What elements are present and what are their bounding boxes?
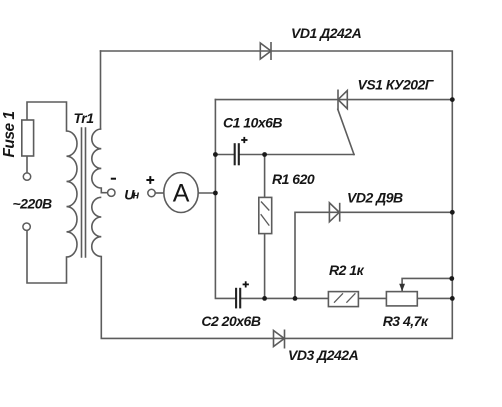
- svg-text:Fuse 1: Fuse 1: [1, 111, 18, 157]
- svg-text:R3 4,7к: R3 4,7к: [383, 313, 429, 329]
- svg-text:~220В: ~220В: [13, 196, 53, 212]
- svg-text:Tr1: Tr1: [74, 110, 95, 126]
- svg-text:C2 20x6В: C2 20x6В: [201, 313, 260, 329]
- svg-text:VD1 Д242А: VD1 Д242А: [291, 25, 362, 41]
- svg-text:VD3 Д242А: VD3 Д242А: [288, 347, 359, 363]
- svg-text:VD2 Д9В: VD2 Д9В: [347, 190, 403, 206]
- svg-text:C1 10x6В: C1 10x6В: [223, 115, 282, 131]
- svg-text:R2 1к: R2 1к: [329, 262, 365, 278]
- svg-text:н: н: [133, 190, 140, 202]
- svg-text:A: A: [173, 180, 190, 208]
- svg-text:VS1 КУ202Г: VS1 КУ202Г: [358, 76, 435, 92]
- svg-text:R1 620: R1 620: [272, 171, 315, 187]
